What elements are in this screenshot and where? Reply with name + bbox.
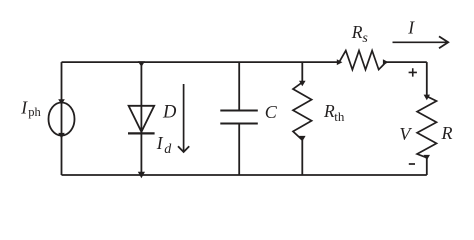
resistor Rth zigzag	[293, 82, 312, 140]
svg-text:V: V	[399, 124, 412, 144]
capacitor C top plate	[220, 109, 257, 111]
plus sign	[409, 68, 417, 76]
wire: top rail right segment	[386, 61, 427, 63]
current I arrow shaft	[393, 41, 448, 43]
wire: capacitor branch upper	[238, 62, 240, 110]
wire: top rail left segment	[62, 61, 340, 63]
svg-text:d: d	[164, 142, 172, 157]
diode D cathode bar	[128, 132, 155, 134]
wire: left rail	[61, 62, 63, 175]
svg-text:C: C	[265, 102, 278, 122]
junction: Rth zigzag top	[299, 81, 306, 87]
svg-text:R: R	[351, 22, 363, 42]
svg-text:I: I	[156, 133, 164, 153]
junction: R zigzag top	[424, 95, 430, 101]
junction: diode top	[138, 61, 145, 67]
svg-text:s: s	[362, 31, 368, 46]
junction: Rs zigzag right	[383, 59, 389, 65]
svg-text:th: th	[334, 109, 345, 124]
diode D triangle	[129, 106, 155, 132]
current Id arrowhead	[178, 146, 189, 152]
source arrowhead bottom	[58, 133, 65, 139]
resistor R zigzag	[417, 96, 436, 157]
wire: Rth branch lower stub	[301, 140, 303, 175]
wire: diode branch	[140, 62, 142, 175]
wire: right rail lower segment	[426, 158, 428, 175]
wire: capacitor branch lower	[238, 124, 240, 176]
capacitor C bottom plate	[220, 122, 257, 124]
junction: Rth zigzag bottom	[299, 136, 306, 142]
resistor Rs zigzag	[339, 51, 386, 70]
source arrowhead top	[58, 99, 65, 105]
junction: Rs zigzag left	[337, 59, 343, 65]
current I arrowhead	[439, 36, 448, 48]
svg-text:ph: ph	[28, 105, 41, 119]
svg-text:D: D	[162, 103, 177, 123]
junction: R zigzag bottom	[424, 155, 430, 160]
minus sign	[409, 163, 415, 165]
svg-text:R: R	[441, 123, 453, 143]
svg-text:I: I	[407, 18, 415, 38]
svg-text:I: I	[20, 97, 28, 117]
junction: diode bottom	[138, 172, 145, 178]
current Id arrow shaft	[183, 84, 185, 152]
wire: Rth branch upper stub	[301, 62, 303, 82]
svg-text:R: R	[323, 101, 335, 121]
current source Iph (ellipse)	[49, 103, 75, 136]
wire: bottom rail	[62, 174, 427, 176]
wire: right rail upper segment	[426, 62, 428, 96]
